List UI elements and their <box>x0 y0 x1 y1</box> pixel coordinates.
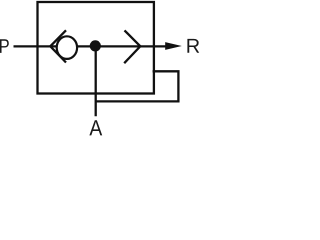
port label P <box>0 39 9 53</box>
wire A vertical <box>95 46 97 116</box>
port label A <box>89 120 102 135</box>
arrowhead R <box>165 42 182 50</box>
valve body box <box>38 2 154 94</box>
port label R <box>187 39 199 53</box>
check valve ball <box>57 36 77 59</box>
check valve seat <box>50 30 66 62</box>
pilot feedback line <box>96 71 179 101</box>
flow arrow chevron <box>124 30 140 63</box>
node junction dot <box>90 40 101 51</box>
wire P to R main line <box>14 45 168 47</box>
